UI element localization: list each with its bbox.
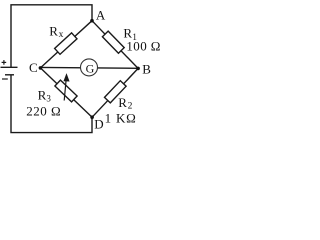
- svg-text:x: x: [59, 30, 64, 40]
- svg-text:R: R: [49, 24, 58, 39]
- svg-text:C: C: [29, 60, 38, 75]
- svg-text:R: R: [38, 87, 47, 102]
- svg-text:220 Ω: 220 Ω: [26, 103, 61, 118]
- svg-text:3: 3: [46, 93, 51, 103]
- svg-text:A: A: [96, 8, 106, 23]
- svg-text:100 Ω: 100 Ω: [126, 38, 160, 53]
- svg-text:B: B: [142, 61, 151, 76]
- svg-text:G: G: [86, 61, 95, 75]
- svg-text:1 KΩ: 1 KΩ: [105, 110, 137, 125]
- svg-text:R: R: [118, 95, 127, 110]
- svg-text:D: D: [94, 116, 103, 131]
